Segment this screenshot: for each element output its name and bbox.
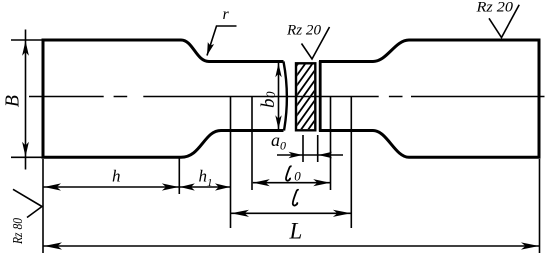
l arrow right bbox=[333, 210, 351, 217]
B dimension arrow up bbox=[22, 41, 29, 56]
svg-text:Rz 80: Rz 80 bbox=[11, 218, 26, 245]
h1 arrow right bbox=[215, 183, 230, 190]
B dimension arrow down bbox=[22, 142, 29, 157]
l0 arrow right bbox=[313, 179, 330, 186]
specimen outline left half bbox=[43, 40, 284, 157]
svg-text:b0: b0 bbox=[258, 91, 279, 108]
l arrow left bbox=[231, 210, 249, 217]
h dimension line bbox=[44, 186, 179, 188]
l dimension line bbox=[231, 212, 351, 214]
h1 arrow left bbox=[180, 183, 195, 190]
label l0 (script ell with subscript) bbox=[286, 166, 292, 180]
surface finish mark Rz80 left bbox=[13, 189, 42, 217]
b0 dimension line bbox=[278, 63, 280, 130]
left piece break end line bbox=[284, 62, 287, 131]
surface finish mark Rz20 centre bbox=[302, 27, 330, 59]
svg-text:a0: a0 bbox=[271, 130, 286, 153]
L arrow left bbox=[44, 242, 62, 249]
a0 dimension line bbox=[277, 154, 343, 156]
label l (script ell) bbox=[293, 190, 299, 206]
b0 arrow down bbox=[275, 115, 281, 129]
svg-text:h1: h1 bbox=[199, 167, 213, 190]
l extension line right bbox=[350, 97, 352, 229]
h extension line right (grip corner) bbox=[178, 159, 180, 195]
B dimension line bbox=[25, 30, 27, 170]
B dimension extension line bottom bbox=[11, 156, 42, 158]
l0 extension line right bbox=[330, 97, 332, 191]
a0 arrow pointing left bbox=[318, 152, 332, 158]
L arrow right bbox=[521, 242, 539, 249]
left extension line (specimen end, for h and L) bbox=[42, 159, 44, 253]
svg-text:L: L bbox=[289, 219, 303, 244]
specimen outline right half bbox=[319, 40, 539, 157]
l0 dimension line bbox=[253, 182, 330, 184]
surface finish mark Rz20 right bbox=[489, 5, 519, 38]
B dimension extension line top bbox=[11, 39, 42, 41]
svg-text:r: r bbox=[223, 6, 230, 23]
svg-text:h: h bbox=[112, 167, 121, 186]
right piece break end line bbox=[319, 61, 322, 132]
svg-text:0: 0 bbox=[294, 169, 301, 184]
l0 extension line left bbox=[251, 97, 253, 191]
L extension line right bbox=[539, 159, 541, 253]
a0 extension line right bbox=[317, 135, 319, 162]
r leader arrow bbox=[207, 26, 237, 56]
h arrow left bbox=[44, 183, 61, 190]
a0 extension line left bbox=[302, 135, 304, 162]
a0 arrow pointing right bbox=[289, 152, 303, 158]
l0 arrow left bbox=[253, 179, 270, 186]
b0 arrow up bbox=[275, 63, 281, 77]
h1 dimension line bbox=[180, 186, 230, 188]
L dimension line bbox=[44, 245, 540, 247]
svg-text:Rz 20: Rz 20 bbox=[475, 0, 513, 15]
svg-text:Rz 20: Rz 20 bbox=[286, 23, 322, 39]
svg-text:B: B bbox=[2, 95, 24, 107]
l extension line left bbox=[230, 97, 232, 229]
centerline (dash-dot specimen axis) bbox=[29, 96, 545, 98]
h arrow right bbox=[162, 183, 179, 190]
section strip (hatched cross-section a0 x b0) bbox=[295, 38, 317, 158]
